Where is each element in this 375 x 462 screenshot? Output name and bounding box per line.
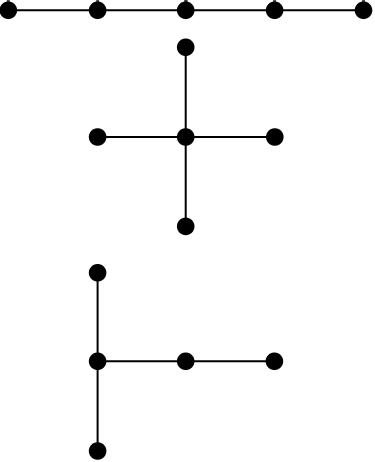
node c-bottom (89, 442, 107, 460)
node a4 (266, 2, 284, 20)
node b-left (89, 128, 107, 146)
wire: clipped vertical edge stub above node a4 (273, 0, 276, 7)
node b-top (177, 39, 195, 57)
wire: path-graph horizontal edge a1-a5 (8, 9, 363, 11)
wire: T-graph horizontal edge c-mid to c-right (98, 360, 275, 362)
node b-bottom (177, 218, 195, 236)
node a5 (355, 2, 373, 20)
wire: star horizontal edge b-left to b-right (98, 136, 275, 138)
node a3 (177, 2, 195, 20)
wire: T-graph vertical edge c-top to c-bottom (97, 273, 99, 451)
node c-mid-right (177, 353, 195, 371)
node b-right (266, 128, 284, 146)
node c-right (266, 353, 284, 371)
wire: clipped vertical edge stub above node a5 (362, 0, 365, 7)
node b-center (177, 128, 195, 146)
wire: clipped vertical edge stub above node a1 (7, 0, 10, 7)
node a2 (89, 2, 107, 20)
node c-top (89, 264, 107, 282)
node c-mid (89, 353, 107, 371)
wire: star vertical edge b-top to b-bottom (185, 47, 187, 226)
wire: clipped vertical edge stub above node a3 (184, 0, 187, 7)
node a1 (0, 2, 17, 20)
wire: clipped vertical edge stub above node a2 (96, 0, 99, 7)
